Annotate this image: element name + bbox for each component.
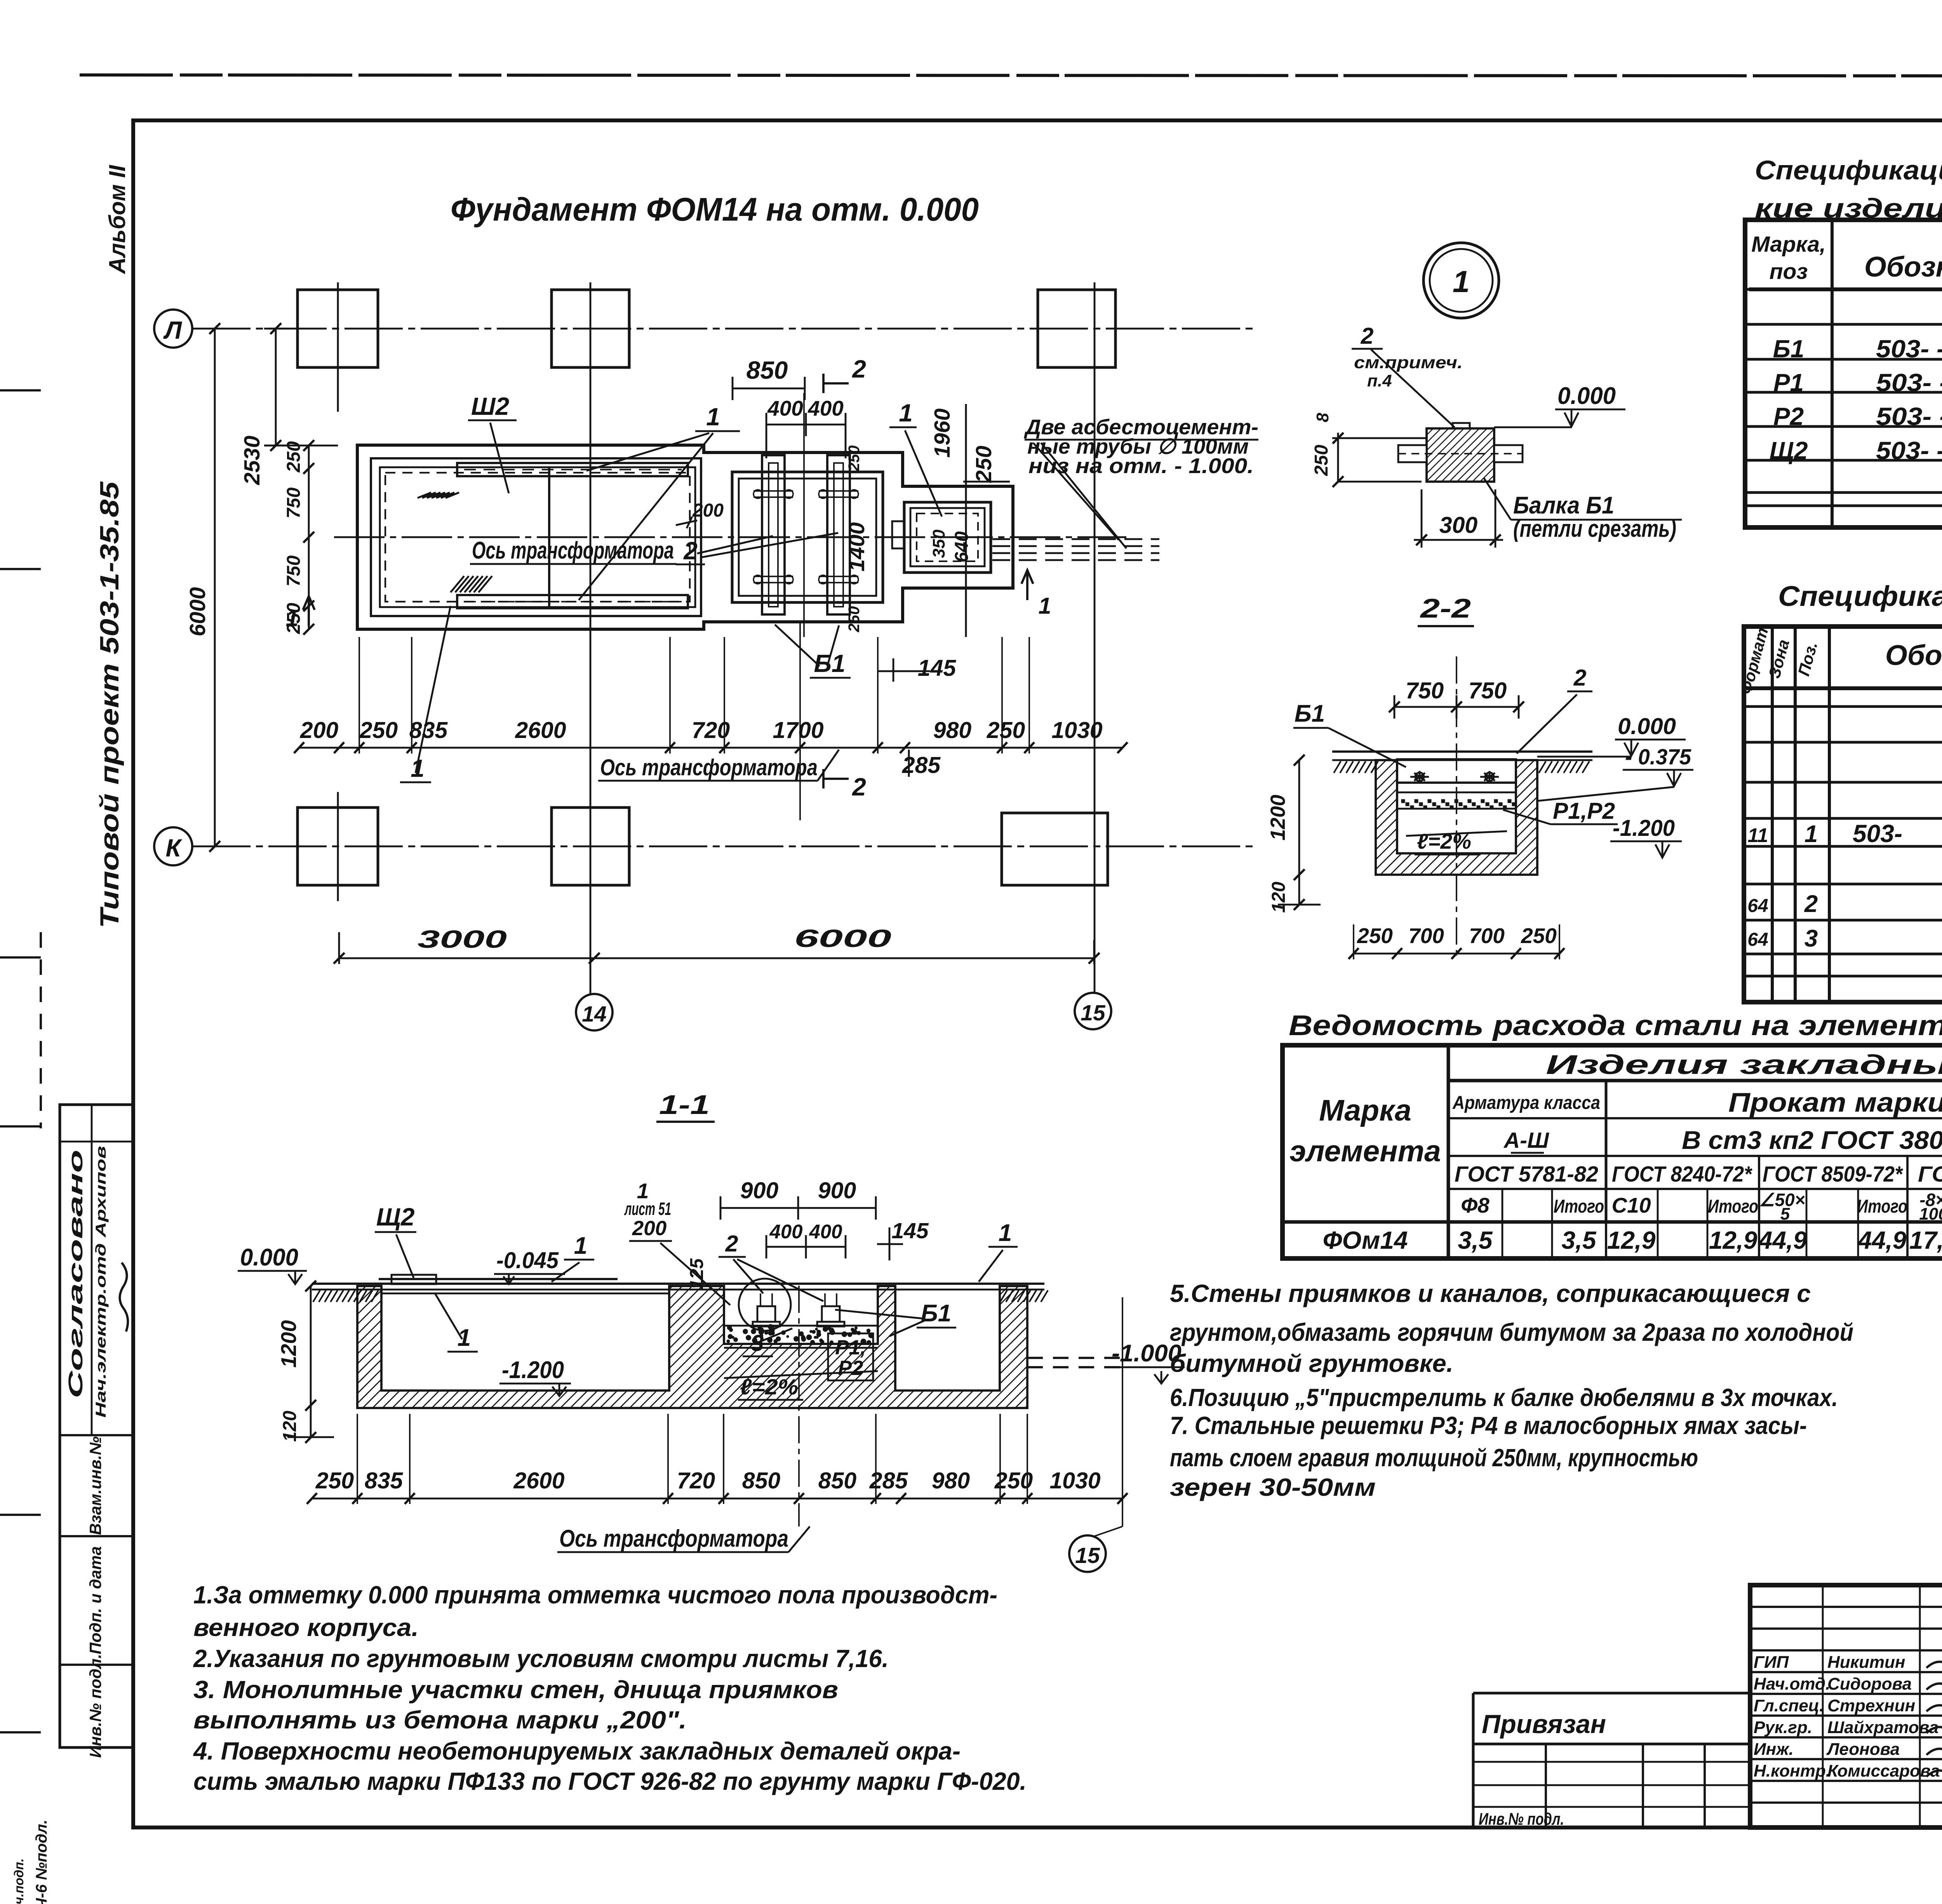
svg-text:Взам.инв.№: Взам.инв.№ xyxy=(86,1436,104,1535)
svg-text:100: 100 xyxy=(1919,1204,1942,1224)
svg-text:400: 400 xyxy=(769,1220,802,1243)
svg-text:Инв.№ подл.: Инв.№ подл. xyxy=(86,1654,104,1758)
svg-text:1200: 1200 xyxy=(277,1320,301,1368)
svg-text:лист 51: лист 51 xyxy=(624,1199,671,1219)
svg-text:5: 5 xyxy=(1780,1204,1790,1224)
svg-text:Никитин: Никитин xyxy=(1827,1653,1905,1672)
svg-text:элемента: элемента xyxy=(1289,1135,1441,1168)
svg-text:850: 850 xyxy=(818,1468,857,1493)
svg-text:Гл.спец.: Гл.спец. xyxy=(1754,1696,1824,1715)
svg-text:2: 2 xyxy=(683,537,698,565)
svg-text:17,6: 17,6 xyxy=(1909,1226,1942,1254)
svg-text:503- - КЖИ- Р4: 503- - КЖИ- Р4 xyxy=(1876,402,1942,430)
svg-text:700: 700 xyxy=(1408,924,1444,948)
svg-text:6.Позицию „5"пристрелить к ба: 6.Позицию „5"пристрелить к балке дюбелям… xyxy=(1170,1384,1838,1411)
svg-text:850: 850 xyxy=(742,1468,781,1493)
svg-text:12,9: 12,9 xyxy=(1709,1226,1758,1254)
svg-text:Б1: Б1 xyxy=(814,649,846,677)
svg-text:64: 64 xyxy=(1747,929,1768,950)
svg-text:Р2: Р2 xyxy=(838,1357,863,1380)
svg-text:2: 2 xyxy=(852,355,866,383)
svg-text:200: 200 xyxy=(692,500,724,521)
svg-text:145: 145 xyxy=(891,1218,929,1243)
svg-text:2: 2 xyxy=(852,773,866,801)
svg-text:3,5: 3,5 xyxy=(1562,1226,1597,1254)
svg-text:350: 350 xyxy=(929,529,948,558)
svg-text:Ось трансформатора: Ось трансформатора xyxy=(559,1525,788,1552)
svg-text:К: К xyxy=(165,834,182,862)
svg-text:14: 14 xyxy=(582,1002,606,1027)
svg-text:ГОСТ 103-76: ГОСТ 103-76 xyxy=(1918,1162,1942,1187)
svg-text:200: 200 xyxy=(632,1217,666,1240)
svg-text:Ч-6 №подл.: Ч-6 №подл. xyxy=(33,1820,50,1904)
svg-text:400: 400 xyxy=(807,396,844,420)
svg-text:Поз.: Поз. xyxy=(1794,640,1821,678)
svg-text:750: 750 xyxy=(284,487,304,519)
svg-text:Ш2: Ш2 xyxy=(471,392,509,420)
svg-text:Шайхратова: Шайхратова xyxy=(1827,1718,1939,1737)
svg-text:15: 15 xyxy=(1075,1543,1100,1568)
svg-text:Согласовано: Согласовано xyxy=(64,1150,87,1398)
svg-text:2600: 2600 xyxy=(515,717,566,743)
svg-text:Итого: Итого xyxy=(1857,1196,1907,1217)
svg-text:900: 900 xyxy=(818,1178,856,1203)
svg-text:Р2: Р2 xyxy=(1773,402,1804,430)
svg-text:850: 850 xyxy=(747,356,788,384)
svg-text:503- - КЖИ- Щ2: 503- - КЖИ- Щ2 xyxy=(1876,437,1942,465)
svg-text:С10: С10 xyxy=(1612,1193,1651,1217)
svg-text:Стрехнин: Стрехнин xyxy=(1827,1696,1915,1715)
svg-text:Комиссарова: Комиссарова xyxy=(1827,1761,1940,1780)
svg-text:ГОСТ 8240-72*: ГОСТ 8240-72* xyxy=(1612,1162,1753,1187)
svg-text:3: 3 xyxy=(1805,925,1818,952)
svg-text:Нач.отд.: Нач.отд. xyxy=(1754,1674,1830,1693)
svg-text:1: 1 xyxy=(899,399,913,427)
svg-text:250: 250 xyxy=(1357,924,1393,948)
svg-text:400: 400 xyxy=(809,1220,842,1243)
svg-text:64: 64 xyxy=(1747,896,1768,916)
svg-text:Б1: Б1 xyxy=(1773,335,1805,363)
svg-text:250: 250 xyxy=(284,603,304,634)
svg-text:Арматура класса: Арматура класса xyxy=(1452,1093,1600,1113)
svg-text:битумной грунтовке.: битумной грунтовке. xyxy=(1170,1349,1453,1377)
svg-text:грунтом,обмазать горячим биту: грунтом,обмазать горячим битумом за 2раз… xyxy=(1170,1318,1853,1346)
svg-text:-0.045: -0.045 xyxy=(496,1248,559,1273)
svg-text:700: 700 xyxy=(1469,924,1505,948)
svg-text:Р1: Р1 xyxy=(1773,369,1804,397)
svg-text:720: 720 xyxy=(677,1468,715,1493)
svg-text:пать слоем гравия толщиной: пать слоем гравия толщиной 250мм, крупно… xyxy=(1170,1444,1698,1472)
svg-text:2-2: 2-2 xyxy=(1419,593,1471,623)
svg-text:п.4: п.4 xyxy=(1367,371,1392,390)
svg-text:Л: Л xyxy=(163,316,183,344)
svg-text:1: 1 xyxy=(574,1232,587,1259)
svg-text:Рук.гр.: Рук.гр. xyxy=(1754,1718,1812,1737)
svg-text:Инв.№ подл.: Инв.№ подл. xyxy=(1479,1810,1564,1829)
svg-text:250: 250 xyxy=(1311,445,1332,476)
svg-text:ГОСТ 8509-72*: ГОСТ 8509-72* xyxy=(1763,1162,1904,1187)
svg-text:1: 1 xyxy=(458,1324,471,1351)
svg-text:Н.контр.: Н.контр. xyxy=(1754,1761,1831,1780)
svg-text:6000: 6000 xyxy=(794,924,891,952)
svg-text:0.000: 0.000 xyxy=(240,1244,298,1271)
svg-text:1: 1 xyxy=(1039,593,1051,619)
svg-text:- 0.375: - 0.375 xyxy=(1625,745,1691,769)
svg-text:1: 1 xyxy=(1453,264,1470,299)
svg-text:3: 3 xyxy=(751,1330,764,1356)
svg-text:640: 640 xyxy=(952,531,972,562)
svg-text:Нач.электр.отд Архипов: Нач.электр.отд Архипов xyxy=(93,1146,109,1418)
svg-text:250: 250 xyxy=(987,717,1025,743)
svg-text:Ведомость расхода стали: Ведомость расхода стали на элемент, кг xyxy=(1289,1010,1942,1041)
svg-text:285: 285 xyxy=(902,752,941,778)
svg-text:Щ2: Щ2 xyxy=(376,1203,415,1231)
svg-text:250: 250 xyxy=(359,717,398,743)
svg-text:Ф8: Ф8 xyxy=(1461,1193,1490,1217)
svg-text:250: 250 xyxy=(315,1468,354,1493)
svg-text:Инж.: Инж. xyxy=(1754,1740,1794,1759)
svg-text:285: 285 xyxy=(869,1468,908,1493)
svg-text:750: 750 xyxy=(284,555,304,587)
svg-text:Ось трансформатора: Ось трансформатора xyxy=(600,755,818,780)
svg-text:Привязан: Привязан xyxy=(1482,1709,1606,1739)
svg-text:Ч.ч.подп.: Ч.ч.подп. xyxy=(12,1859,26,1904)
svg-text:Фундамент ФОМ14 на отм.: Фундамент ФОМ14 на отм. 0.000 xyxy=(451,191,979,228)
svg-text:125: 125 xyxy=(687,1258,707,1290)
svg-text:200: 200 xyxy=(300,717,339,743)
svg-text:ГИП: ГИП xyxy=(1754,1653,1789,1672)
svg-text:поз: поз xyxy=(1770,259,1808,284)
svg-text:0.000: 0.000 xyxy=(1557,383,1616,409)
svg-text:ℓ=2%: ℓ=2% xyxy=(1417,829,1471,853)
svg-text:Подп. и дата: Подп. и дата xyxy=(86,1546,104,1654)
svg-text:Итого: Итого xyxy=(1708,1196,1758,1217)
svg-text:1-1: 1-1 xyxy=(659,1089,710,1120)
svg-text:1400: 1400 xyxy=(844,522,869,571)
svg-text:503- - КЖИ- Р3: 503- - КЖИ- Р3 xyxy=(1876,369,1942,397)
svg-text:11: 11 xyxy=(1748,824,1768,846)
svg-text:низ на отм. - 1.000.: низ на отм. - 1.000. xyxy=(1028,454,1254,478)
svg-text:900: 900 xyxy=(740,1178,779,1203)
svg-text:120: 120 xyxy=(1269,882,1289,913)
svg-text:ℓ=2%: ℓ=2% xyxy=(740,1375,798,1399)
svg-text:44,9: 44,9 xyxy=(1758,1226,1807,1254)
svg-text:ФОм14: ФОм14 xyxy=(1323,1226,1408,1254)
svg-text:7. Стальные решетки Р3; Р4 в: 7. Стальные решетки Р3; Р4 в малосборных… xyxy=(1170,1411,1807,1439)
svg-text:1030: 1030 xyxy=(1049,1468,1100,1493)
svg-text:980: 980 xyxy=(932,1468,970,1493)
svg-text:зерен 30-50мм: зерен 30-50мм xyxy=(1170,1473,1376,1501)
svg-text:835: 835 xyxy=(409,717,448,743)
svg-text:Ось трансформатора: Ось трансформатора xyxy=(472,537,674,564)
svg-text:Сидорова: Сидорова xyxy=(1827,1674,1912,1693)
svg-text:2530: 2530 xyxy=(240,435,265,485)
svg-text:Балка Б1: Балка Б1 xyxy=(1513,492,1614,519)
svg-text:15: 15 xyxy=(1081,1001,1106,1025)
svg-text:250: 250 xyxy=(1521,924,1557,948)
svg-text:2600: 2600 xyxy=(513,1468,564,1493)
svg-text:3. Монолитные участки стен,: 3. Монолитные участки стен, днища приямк… xyxy=(193,1676,838,1704)
svg-text:835: 835 xyxy=(365,1468,404,1493)
svg-text:ГОСТ 5781-82: ГОСТ 5781-82 xyxy=(1455,1162,1598,1187)
svg-text:250: 250 xyxy=(971,446,996,483)
svg-text:503- - КЖИ-Б3а: 503- - КЖИ-Б3а xyxy=(1876,335,1942,363)
svg-text:250: 250 xyxy=(846,606,863,633)
svg-text:Обозначение: Обозначение xyxy=(1885,640,1942,671)
svg-text:Марка: Марка xyxy=(1319,1094,1411,1127)
svg-text:1960: 1960 xyxy=(930,408,955,458)
svg-text:Б1: Б1 xyxy=(921,1300,951,1327)
svg-text:Б1: Б1 xyxy=(1295,700,1325,727)
svg-text:1: 1 xyxy=(1805,821,1818,848)
svg-text:2: 2 xyxy=(1573,665,1587,691)
svg-text:980: 980 xyxy=(933,717,972,743)
svg-text:Спецификация на железобетонн: Спецификация на железобетонные, металлич… xyxy=(1755,155,1942,185)
svg-text:2: 2 xyxy=(1361,323,1374,349)
svg-text:250: 250 xyxy=(846,446,863,472)
svg-text:503-: 503- xyxy=(1853,820,1902,848)
svg-text:6000: 6000 xyxy=(185,587,210,636)
svg-text:Спецификация на фундамент: Спецификация на фундамент ФОМ14 xyxy=(1778,581,1942,612)
svg-text:1: 1 xyxy=(706,403,720,431)
svg-text:Леонова: Леонова xyxy=(1826,1740,1900,1759)
svg-text:8: 8 xyxy=(1313,412,1332,422)
svg-text:А-Ш: А-Ш xyxy=(1503,1128,1549,1153)
svg-text:1030: 1030 xyxy=(1051,717,1102,743)
svg-text:-1.200: -1.200 xyxy=(1613,815,1675,841)
svg-text:см.примеч.: см.примеч. xyxy=(1354,353,1463,372)
svg-text:Итого: Итого xyxy=(1554,1196,1604,1217)
svg-text:-1.200: -1.200 xyxy=(502,1357,564,1384)
svg-text:Альбом II: Альбом II xyxy=(104,165,130,275)
svg-text:Р1,: Р1, xyxy=(835,1336,866,1359)
svg-text:1700: 1700 xyxy=(773,717,823,743)
svg-text:сить эмалью марки ПФ133 по Г: сить эмалью марки ПФ133 по ГОСТ 926-82 п… xyxy=(193,1767,1027,1795)
svg-text:выполнять из бетона марки: выполнять из бетона марки „200". xyxy=(193,1706,687,1734)
svg-text:44,9: 44,9 xyxy=(1857,1226,1907,1254)
svg-text:2: 2 xyxy=(1804,891,1818,917)
svg-text:1.За отметку 0.000 принята от: 1.За отметку 0.000 принята отметка чисто… xyxy=(193,1581,997,1609)
svg-text:12,9: 12,9 xyxy=(1607,1226,1656,1254)
svg-text:Марка,: Марка, xyxy=(1751,232,1826,257)
svg-text:В ст3 кп2 ГОСТ 380-71*: В ст3 кп2 ГОСТ 380-71* xyxy=(1682,1126,1942,1154)
svg-text:(петли срезать): (петли срезать) xyxy=(1513,515,1676,542)
svg-text:300: 300 xyxy=(1439,512,1478,538)
svg-text:Р1,Р2: Р1,Р2 xyxy=(1553,798,1615,824)
svg-text:1: 1 xyxy=(999,1220,1012,1246)
svg-text:Прокат марки: Прокат марки xyxy=(1728,1087,1942,1117)
svg-text:Типовой проект 503-1-35.85: Типовой проект 503-1-35.85 xyxy=(95,481,124,928)
svg-text:5.Стены приямков и каналов,: 5.Стены приямков и каналов, соприкасающи… xyxy=(1170,1279,1811,1307)
svg-text:Зона: Зона xyxy=(1765,637,1793,680)
svg-text:750: 750 xyxy=(1469,678,1507,703)
svg-text:0.000: 0.000 xyxy=(1618,714,1676,739)
svg-text:3000: 3000 xyxy=(418,925,507,953)
svg-text:Изделия закладные: Изделия закладные xyxy=(1546,1049,1942,1080)
svg-text:2.Указания по грунтовым усл: 2.Указания по грунтовым условиям смотри … xyxy=(193,1645,889,1673)
svg-text:145: 145 xyxy=(918,655,957,681)
svg-text:1200: 1200 xyxy=(1267,795,1289,841)
svg-text:3,5: 3,5 xyxy=(1458,1226,1493,1254)
svg-text:2: 2 xyxy=(725,1231,738,1257)
svg-text:750: 750 xyxy=(1406,678,1444,703)
svg-text:4. Поверхности необетонируем: 4. Поверхности необетонируемых закладных… xyxy=(193,1737,961,1765)
svg-text:Щ2: Щ2 xyxy=(1770,437,1808,465)
svg-text:венного корпуса.: венного корпуса. xyxy=(193,1613,419,1641)
svg-text:1: 1 xyxy=(411,754,425,782)
svg-text:400: 400 xyxy=(767,396,803,420)
svg-text:Обозначение: Обозначение xyxy=(1864,251,1942,283)
